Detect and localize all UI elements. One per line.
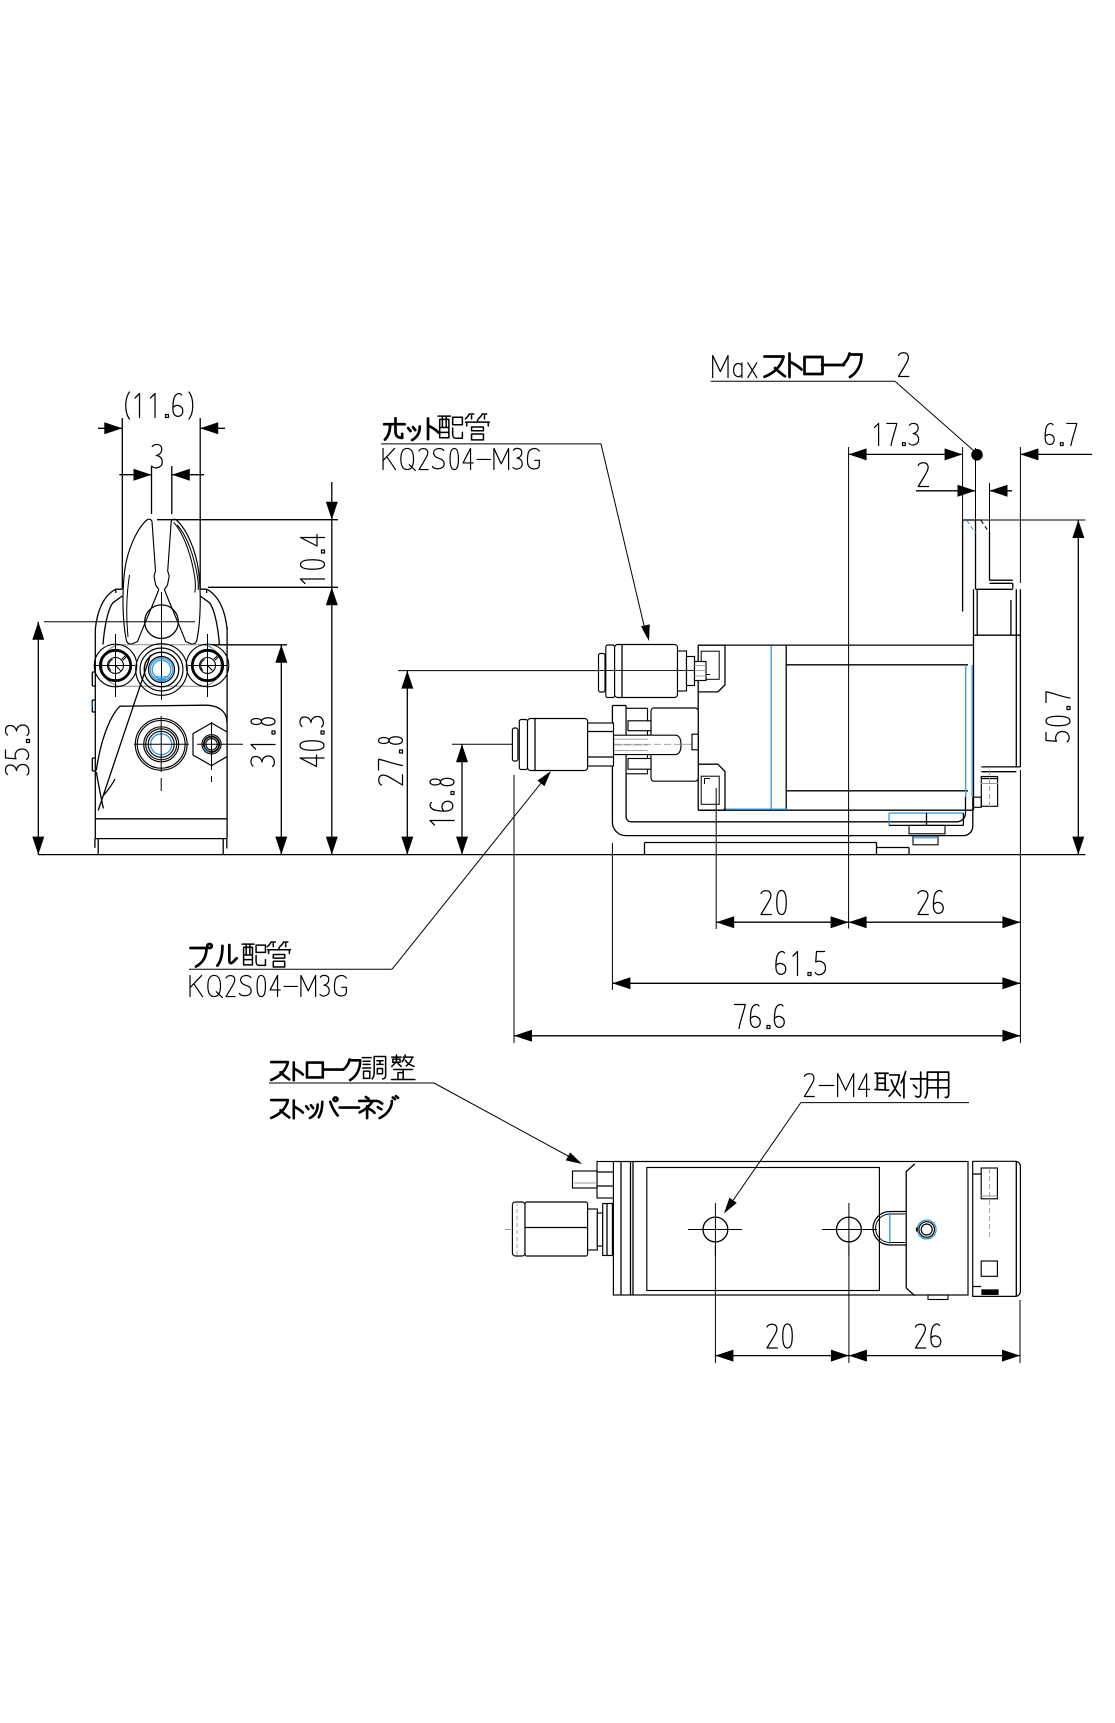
side view: label KQ2S04-M3G (cut) bbox=[383, 448, 539, 470]
dimension 26 (side view) bbox=[849, 891, 1021, 929]
bottom view: bottom center tab bbox=[928, 1295, 948, 1300]
side view: blade top extension line to 50.7 bbox=[981, 519, 1085, 521]
baseline ground line bbox=[38, 854, 1085, 856]
side view: stopper screw rod bbox=[614, 734, 699, 754]
side view: bottom mounting plate pieces bbox=[645, 843, 910, 855]
stopper screw leader line bbox=[269, 1083, 582, 1164]
side view: dimension 50.7 bbox=[1046, 520, 1084, 855]
front view: left cap screw bbox=[94, 634, 137, 697]
front view: body dome shoulder bbox=[95, 589, 227, 644]
side view: blade clamp plate bbox=[976, 580, 1013, 589]
side view: extension lines right side bbox=[849, 447, 1021, 929]
front view: left edge tabs bbox=[92, 672, 96, 771]
side view: label pull piping bbox=[191, 942, 291, 967]
side view: fitting centerlines bbox=[598, 671, 694, 745]
bottom view: mounting hole 1 bbox=[688, 1203, 742, 1256]
side view: dimension 16.8 bbox=[430, 744, 468, 854]
bottom view: blade screw with blue ring bbox=[917, 1220, 936, 1239]
side view: label KQ2S04-M3G (pull) bbox=[190, 975, 346, 997]
front view: hex nut bbox=[193, 722, 243, 782]
side view: blade (side profile) with max-stroke ghost bbox=[963, 520, 990, 612]
bottom view: pull fitting (left) bbox=[505, 1202, 612, 1256]
side view: cylinder body bbox=[698, 645, 973, 810]
side view: upper port boss bbox=[698, 645, 725, 692]
front view: dimension 10.4 and 40.3 shared line bbox=[157, 482, 338, 855]
bottom view: dimension 20 bbox=[715, 1324, 849, 1362]
side view: cut fitting (upper) bbox=[398, 645, 706, 698]
side view: rod-end riser plate bbox=[626, 708, 647, 774]
side view: dimension 17.3 bbox=[849, 423, 963, 460]
front view: dimension (11.6) blade opening width bbox=[98, 392, 225, 589]
side view: clevis tabs bbox=[628, 721, 651, 769]
front view: dimension 31.8 bbox=[213, 645, 287, 855]
front view: body outline bbox=[95, 627, 227, 855]
bottom view: dimension extension lines bbox=[715, 1246, 1020, 1363]
dimensions below side view: extension lines bbox=[514, 770, 1020, 1043]
bottom view: stopper screw (top left) bbox=[573, 1162, 614, 1199]
bottom view: right end block bbox=[973, 1161, 1021, 1296]
side view: max stroke position dot bbox=[972, 450, 983, 461]
side view: label cut piping (katakana+kanji) bbox=[384, 414, 489, 440]
dimension 61.5 bbox=[612, 952, 1020, 990]
front view: dimension 35.3 bbox=[5, 622, 44, 855]
side view: sensor rail (blue) under cylinder bbox=[889, 813, 963, 845]
side view: pull piping leader line bbox=[189, 771, 551, 969]
label stroke adjust stopper screw bbox=[271, 1055, 415, 1118]
bottom view: dimension 26 bbox=[849, 1324, 1020, 1362]
2-M4 leader line bbox=[724, 1103, 969, 1214]
side view: label Max stroke 2 bbox=[713, 353, 909, 378]
front view: lower boss outline bbox=[96, 655, 227, 811]
side view: rod-end block bbox=[651, 708, 698, 781]
dimension 20 (side view) bbox=[716, 891, 848, 929]
dimension 76.6 bbox=[514, 1005, 1020, 1042]
front view: pivot circle bbox=[44, 592, 195, 700]
bottom view: D-slot with blue edge bbox=[873, 1212, 906, 1246]
bottom view: outer body bbox=[613, 1162, 968, 1296]
front view: nipper blades (crossed cutting jaws) bbox=[123, 519, 200, 644]
front view: screw boss strip (gray) bbox=[102, 645, 221, 686]
side view: dimension 2 (stroke) bbox=[916, 463, 1012, 497]
side view: dimension 6.7 bbox=[1020, 423, 1092, 460]
front view: center port circle with blue tube bbox=[136, 644, 188, 696]
side view: cut piping leader line bbox=[381, 444, 650, 641]
bottom view: mounting hole 2 bbox=[822, 1203, 877, 1256]
front view: dimension 3 blade tip width bbox=[119, 444, 204, 514]
side view: blade holder block bbox=[974, 589, 1021, 771]
front view: lower port circle with blue tube bbox=[134, 716, 189, 791]
side view: max stroke leader to dot bbox=[711, 381, 976, 452]
bottom view: blade block chamfered bbox=[906, 1164, 915, 1296]
side view: L bracket bbox=[612, 665, 972, 836]
label 2-M4 mounting holes bbox=[804, 1072, 948, 1098]
side view: lower port boss bbox=[698, 764, 725, 810]
front view: right cap screw bbox=[186, 634, 229, 697]
side view: holder adjust screw bbox=[973, 770, 998, 809]
side view: pull fitting (lower) bbox=[452, 719, 614, 771]
side view: dimension 27.8 bbox=[379, 671, 414, 855]
